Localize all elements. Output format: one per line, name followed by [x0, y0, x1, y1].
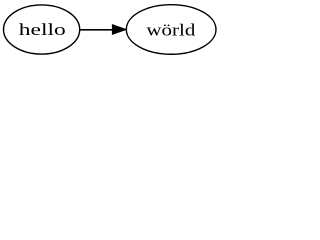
svg-text:hello: hello — [19, 20, 66, 39]
svg-text:wörld: wörld — [146, 20, 196, 39]
node hello (ellipse) — [4, 5, 80, 54]
background — [0, 0, 218, 59]
node wörld (ellipse) — [126, 5, 216, 55]
edge hello->wörld wire — [80, 29, 113, 31]
edge arrowhead — [112, 25, 126, 35]
